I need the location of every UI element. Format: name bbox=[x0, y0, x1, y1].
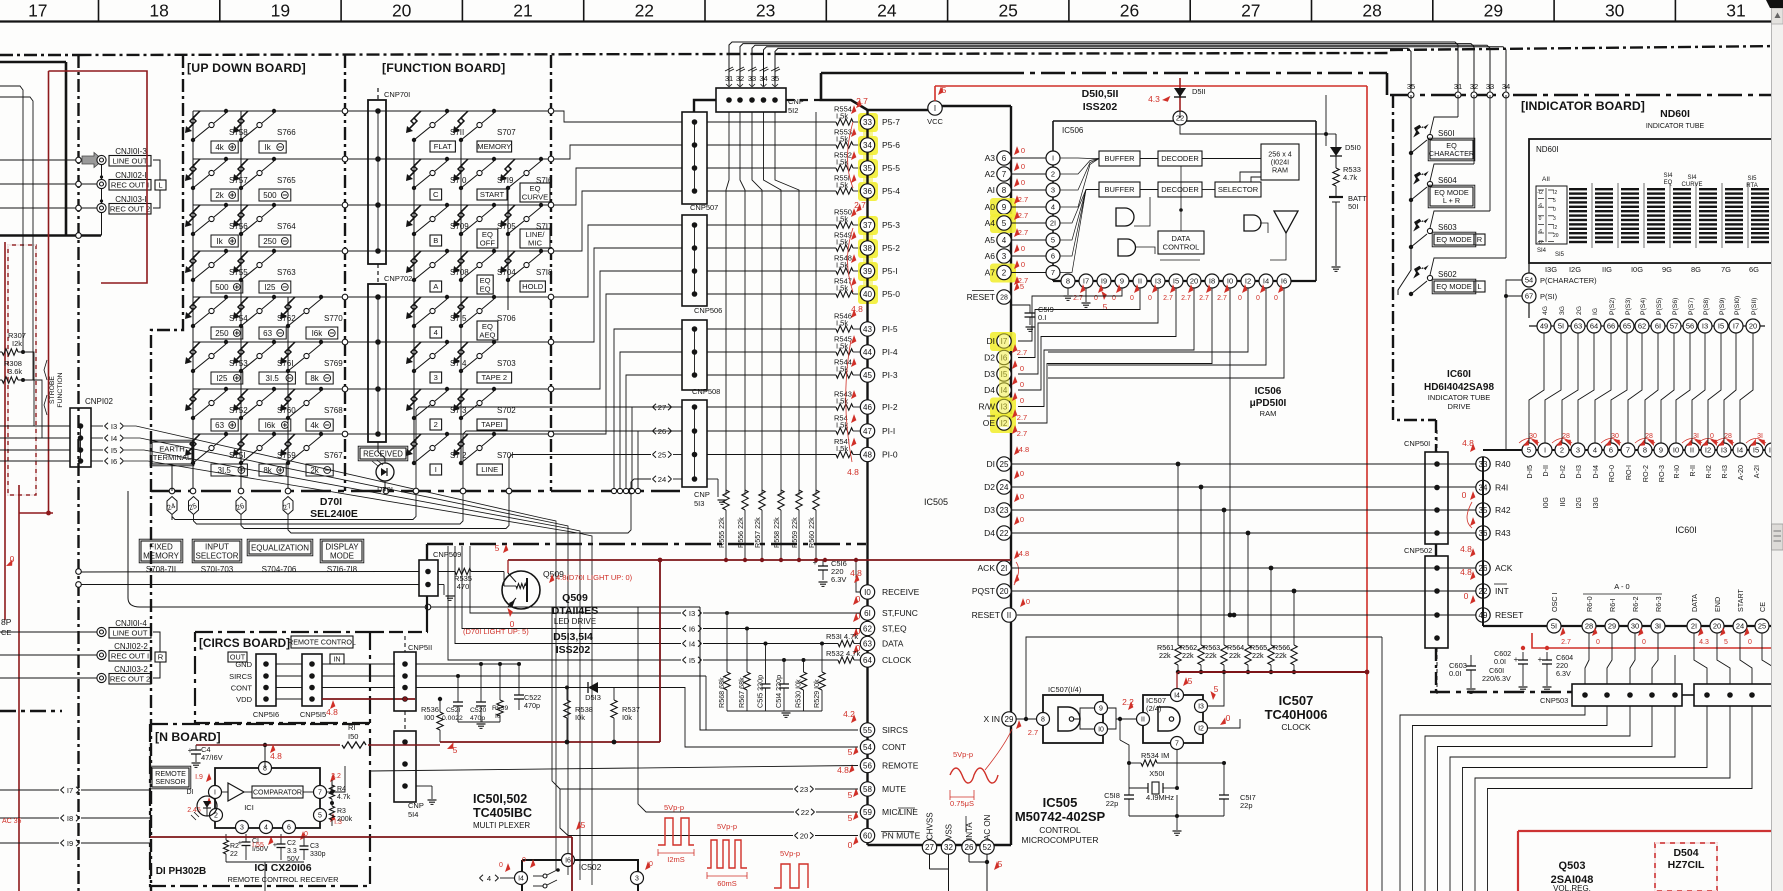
indicator board boundary bbox=[1390, 94, 1783, 97]
circs board frame bbox=[195, 631, 370, 633]
svg-text:R6-2: R6-2 bbox=[1631, 596, 1640, 612]
svg-text:4.3: 4.3 bbox=[1699, 639, 1709, 646]
connector CNP513 bbox=[682, 400, 707, 487]
svg-text:FLAT: FLAT bbox=[434, 142, 452, 151]
svg-text:S604: S604 bbox=[1438, 176, 1457, 185]
switch S766 bbox=[239, 138, 243, 142]
svg-text:22: 22 bbox=[801, 808, 809, 817]
svg-text:C5I4 220p: C5I4 220p bbox=[774, 675, 783, 708]
IC505 pin 46 PI-2 bbox=[860, 400, 874, 414]
wire tube pin 65 to IC601 bbox=[1611, 333, 1627, 443]
red mark left edge bbox=[6, 559, 13, 566]
svg-text:R555 22k: R555 22k bbox=[717, 517, 726, 548]
svg-text:+: + bbox=[1514, 654, 1519, 664]
svg-text:CNP702: CNP702 bbox=[384, 274, 412, 283]
svg-text:R: R bbox=[1477, 235, 1483, 244]
N board wires bbox=[264, 761, 266, 768]
svg-text:0.75μS: 0.75μS bbox=[950, 799, 974, 808]
IC601 pin 29 R6-I bbox=[1605, 619, 1619, 633]
svg-text:64: 64 bbox=[863, 656, 872, 665]
svg-text:CONT: CONT bbox=[231, 684, 253, 693]
svg-text:I0k: I0k bbox=[575, 713, 585, 722]
svg-text:P5-5: P5-5 bbox=[882, 163, 900, 173]
svg-text:P5-2: P5-2 bbox=[882, 243, 900, 253]
svg-text:2I: 2I bbox=[1050, 219, 1056, 228]
svg-text:S764: S764 bbox=[277, 222, 296, 231]
svg-text:S70I-703: S70I-703 bbox=[201, 565, 234, 574]
svg-text:R568 68k: R568 68k bbox=[717, 677, 726, 708]
IC505 right edge bbox=[1010, 106, 1012, 845]
svg-text:50I: 50I bbox=[1348, 202, 1358, 211]
svg-text:2.7: 2.7 bbox=[1018, 195, 1028, 204]
wire matrix row to connector bbox=[560, 111, 682, 122]
switch S709 bbox=[412, 232, 416, 236]
svg-text:SELECTOR: SELECTOR bbox=[1218, 185, 1259, 194]
svg-text:4.I9MHz: 4.I9MHz bbox=[1146, 793, 1174, 802]
svg-text:RO-2: RO-2 bbox=[1641, 465, 1650, 482]
svg-text:RAM: RAM bbox=[1272, 166, 1288, 175]
svg-text:34: 34 bbox=[759, 74, 767, 83]
svg-text:I3: I3 bbox=[689, 609, 695, 618]
tube ND601 pin 5I 3G bbox=[1554, 319, 1568, 333]
resistor R533 4.7k bbox=[1333, 168, 1339, 186]
wire bus lead 35 bbox=[775, 48, 1411, 95]
svg-text:A2: A2 bbox=[985, 169, 996, 179]
crystal bottom wire bbox=[1129, 815, 1224, 817]
wire CNP512 left to CNP507 bbox=[694, 100, 716, 112]
svg-text:CNP50I: CNP50I bbox=[1404, 439, 1430, 448]
svg-text:I6k: I6k bbox=[265, 421, 277, 430]
IC506 pin22 top bbox=[1173, 111, 1187, 125]
wires 13-15 vertical risers bbox=[470, 546, 681, 613]
svg-text:32: 32 bbox=[944, 843, 953, 852]
svg-text:22k: 22k bbox=[1205, 651, 1217, 660]
IC601 top pin 6 bbox=[1604, 443, 1618, 457]
resistor R558 22k bbox=[778, 490, 784, 510]
svg-text:D3: D3 bbox=[984, 505, 995, 515]
svg-text:RESET: RESET bbox=[972, 610, 1000, 620]
white circles crossing indicator boundary bbox=[1408, 92, 1414, 98]
svg-text:4.8: 4.8 bbox=[1462, 438, 1474, 448]
tube ND601 outline bbox=[1529, 139, 1772, 263]
svg-text:2G: 2G bbox=[1576, 306, 1583, 315]
IC505 pin 3 A6 bbox=[997, 249, 1011, 263]
wires from CNP102 pins rightward bbox=[124, 426, 556, 870]
svg-text:9: 9 bbox=[1099, 706, 1103, 713]
svg-text:I2: I2 bbox=[1553, 225, 1557, 231]
svg-text:20: 20 bbox=[1000, 587, 1009, 596]
svg-text:2: 2 bbox=[1051, 170, 1055, 179]
wire thick feed from boundary to IC505 bbox=[821, 72, 1000, 75]
svg-text:43: 43 bbox=[863, 325, 872, 334]
wire CNP503 fan bbox=[1463, 706, 1708, 891]
resistor R537 10k bbox=[598, 687, 614, 689]
svg-text:R557 22k: R557 22k bbox=[753, 517, 762, 548]
svg-text:I: I bbox=[435, 465, 437, 474]
svg-text:R532 4.7k: R532 4.7k bbox=[826, 649, 860, 658]
svg-text:I2G: I2G bbox=[1574, 497, 1583, 509]
IC601 pin 20 END bbox=[1710, 619, 1724, 633]
switch S60I bbox=[1409, 151, 1413, 155]
svg-text:ISS202: ISS202 bbox=[556, 644, 591, 656]
svg-text:D5II: D5II bbox=[1192, 87, 1206, 96]
IC601 pin 2I DATA bbox=[1687, 619, 1701, 633]
wires 61 62 from angle labels bbox=[703, 612, 860, 614]
svg-text:I0: I0 bbox=[864, 588, 871, 597]
svg-text:7: 7 bbox=[1175, 741, 1179, 748]
red marks IC506 bottom pins bbox=[1080, 284, 1085, 293]
svg-text:470p: 470p bbox=[524, 701, 540, 710]
svg-text:4.8: 4.8 bbox=[1019, 445, 1029, 454]
wire REMOTE long bbox=[370, 766, 858, 772]
svg-text:I6: I6 bbox=[111, 457, 117, 466]
svg-text:+: + bbox=[1538, 654, 1543, 664]
wire matrix row to connector bbox=[560, 225, 682, 297]
svg-text:S602: S602 bbox=[1438, 270, 1457, 279]
svg-text:L: L bbox=[158, 181, 162, 190]
pull-down ground rail bbox=[727, 710, 822, 712]
resistor R556 22k bbox=[742, 490, 748, 510]
resistor R538 10k bbox=[565, 686, 569, 690]
angle labels 23 22 20 wires bbox=[795, 786, 799, 789]
svg-text:5I2: 5I2 bbox=[788, 106, 798, 115]
svg-text:FUNCTION: FUNCTION bbox=[57, 372, 64, 407]
svg-text:S7I6-7I8: S7I6-7I8 bbox=[327, 565, 358, 574]
maroon dashed box left bbox=[8, 245, 36, 495]
IC505 pin I2 OE bbox=[990, 414, 1016, 433]
svg-text:SIRCS: SIRCS bbox=[229, 672, 252, 681]
svg-text:RI: RI bbox=[348, 723, 356, 732]
svg-text:I4: I4 bbox=[1263, 277, 1269, 286]
tube ND601 pin 20 P(SII) bbox=[1746, 319, 1760, 333]
svg-text:6G: 6G bbox=[1749, 265, 1759, 274]
capacitor cluster C521 C520 R539 C522 bbox=[456, 674, 460, 678]
svg-text:0.0I: 0.0I bbox=[1449, 669, 1462, 678]
svg-text:0: 0 bbox=[499, 862, 503, 869]
svg-text:31: 31 bbox=[725, 74, 733, 83]
svg-text:4.8: 4.8 bbox=[850, 568, 862, 578]
wire bank bottoms to VDD rail bbox=[725, 510, 727, 560]
IC505 pin 52 AC ON bbox=[980, 840, 994, 854]
scrollbar thumb bbox=[1772, 524, 1783, 550]
svg-text:S769: S769 bbox=[324, 359, 343, 368]
svg-text:D-I3: D-I3 bbox=[1574, 465, 1583, 479]
connector CNP512 bbox=[716, 88, 786, 112]
IC506 pin 2I bbox=[1046, 216, 1060, 230]
wire CONT bbox=[685, 687, 858, 747]
resistor R530 bbox=[802, 658, 806, 662]
svg-text:34: 34 bbox=[1502, 82, 1510, 91]
switch S762 bbox=[239, 324, 243, 328]
svg-text:R40: R40 bbox=[1495, 459, 1511, 469]
svg-text:3: 3 bbox=[635, 876, 639, 883]
IC505 pin 7 A2 bbox=[997, 167, 1011, 181]
matrix column verticals function bbox=[413, 140, 415, 463]
svg-text:25: 25 bbox=[998, 1, 1017, 21]
top-right margin marker bbox=[1775, 6, 1783, 20]
svg-text:3.2: 3.2 bbox=[331, 773, 341, 780]
switch S770 bbox=[286, 324, 290, 328]
wire CNP503 fan bbox=[1475, 706, 1730, 891]
svg-text:D504: D504 bbox=[1673, 847, 1698, 859]
svg-text:220/6.3V: 220/6.3V bbox=[1482, 674, 1511, 683]
svg-text:CONTROL: CONTROL bbox=[1163, 242, 1200, 251]
tube ND601 pin 64 IG bbox=[1587, 319, 1601, 333]
svg-text:5: 5 bbox=[1051, 236, 1055, 245]
svg-text:I2: I2 bbox=[1245, 277, 1251, 286]
svg-text:TERMINAL: TERMINAL bbox=[153, 453, 191, 462]
svg-text:IC507(I/4): IC507(I/4) bbox=[1048, 685, 1082, 694]
svg-text:2k: 2k bbox=[310, 466, 319, 475]
wire matrix row to connector bbox=[560, 145, 682, 159]
svg-text:P5-0: P5-0 bbox=[882, 289, 900, 299]
svg-text:SI4: SI4 bbox=[1663, 173, 1673, 179]
IC507 quarter 1 box bbox=[1043, 695, 1103, 743]
svg-text:S7I2: S7I2 bbox=[450, 451, 467, 460]
svg-text:9: 9 bbox=[1120, 277, 1124, 286]
IC506 pin 2 bbox=[1046, 167, 1060, 181]
svg-text:S76I: S76I bbox=[277, 359, 293, 368]
svg-text:29: 29 bbox=[1484, 1, 1503, 21]
svg-text:R567 68k: R567 68k bbox=[737, 677, 746, 708]
svg-text:SI5: SI5 bbox=[1747, 176, 1757, 182]
svg-text:5I3: 5I3 bbox=[694, 499, 704, 508]
svg-text:START: START bbox=[480, 190, 505, 199]
svg-text:INT: INT bbox=[1495, 586, 1509, 596]
svg-text:L + R: L + R bbox=[1443, 196, 1460, 205]
svg-text:3: 3 bbox=[1002, 252, 1007, 261]
IC505 pin 22 D4 bbox=[997, 526, 1011, 540]
svg-text:40: 40 bbox=[863, 290, 872, 299]
IC505 pin 43 PI-5 bbox=[860, 322, 874, 336]
angle labels 27-24 at CNP513 bbox=[653, 404, 657, 407]
svg-text:REC OUT 2: REC OUT 2 bbox=[110, 205, 150, 214]
wire matrix row to connector bbox=[560, 191, 682, 251]
svg-text:I5: I5 bbox=[689, 656, 695, 665]
IC601 top pin 2 bbox=[1555, 443, 1569, 457]
tube ND601 pin 63 2G bbox=[1571, 319, 1585, 333]
svg-text:63: 63 bbox=[215, 421, 224, 430]
svg-text:63: 63 bbox=[1574, 322, 1582, 331]
svg-text:I0: I0 bbox=[1227, 277, 1233, 286]
svg-text:0: 0 bbox=[1130, 295, 1134, 302]
svg-text:I2: I2 bbox=[1705, 446, 1711, 455]
svg-text:4: 4 bbox=[487, 874, 491, 883]
svg-text:5I: 5I bbox=[1558, 322, 1564, 331]
IC507 quarter 2 box bbox=[1143, 695, 1203, 743]
svg-text:D4: D4 bbox=[984, 528, 995, 538]
svg-text:C3: C3 bbox=[310, 843, 319, 850]
svg-text:PN MUTE: PN MUTE bbox=[882, 831, 921, 841]
svg-text:0: 0 bbox=[10, 554, 15, 564]
resistor R557 22k bbox=[759, 490, 765, 510]
svg-text:MUTE: MUTE bbox=[882, 784, 906, 794]
buffer box 1 bbox=[1099, 151, 1140, 166]
diode D513 bbox=[566, 686, 568, 688]
IC601 top pin 9 bbox=[1654, 443, 1668, 457]
resistor R561 22k bbox=[1175, 645, 1181, 665]
svg-text:P(SI0): P(SI0) bbox=[1734, 296, 1741, 315]
svg-text:66: 66 bbox=[1607, 322, 1615, 331]
svg-text:49: 49 bbox=[1540, 322, 1548, 331]
svg-text:2.7: 2.7 bbox=[1017, 429, 1027, 438]
svg-text:DI: DI bbox=[987, 459, 996, 469]
svg-text:CNP509: CNP509 bbox=[433, 550, 461, 559]
wire pin14 to red rail bbox=[1176, 672, 1178, 688]
switch S708 bbox=[412, 278, 416, 282]
svg-text:R-I0: R-I0 bbox=[1672, 465, 1681, 479]
svg-text:57: 57 bbox=[1670, 322, 1678, 331]
svg-text:P(SII): P(SII) bbox=[1751, 298, 1758, 315]
svg-text:5: 5 bbox=[1188, 676, 1193, 686]
IC601 pin 24 START bbox=[1733, 619, 1747, 633]
verticals R561-R566 to data buses bbox=[1177, 464, 1179, 645]
svg-text:CLOCK: CLOCK bbox=[882, 655, 912, 665]
svg-text:CNP: CNP bbox=[694, 490, 710, 499]
svg-text:ND60I: ND60I bbox=[1660, 108, 1690, 120]
svg-text:44: 44 bbox=[863, 348, 872, 357]
svg-text:2.7: 2.7 bbox=[854, 200, 866, 210]
svg-text:4.8: 4.8 bbox=[1019, 549, 1029, 558]
svg-text:IC507: IC507 bbox=[1279, 693, 1314, 708]
svg-text:2.7: 2.7 bbox=[856, 96, 868, 106]
svg-text:DATA: DATA bbox=[1690, 594, 1699, 612]
svg-text:25: 25 bbox=[1758, 622, 1766, 631]
svg-text:CNP503: CNP503 bbox=[1540, 696, 1568, 705]
R channel bracket bbox=[153, 632, 160, 652]
up-down / function boundary bbox=[344, 55, 346, 491]
IC506 pin I3 bbox=[1151, 274, 1165, 288]
svg-text:0: 0 bbox=[848, 840, 853, 850]
svg-text:33: 33 bbox=[748, 74, 756, 83]
svg-text:6.3V: 6.3V bbox=[831, 575, 846, 584]
svg-text:A - 0: A - 0 bbox=[1614, 582, 1629, 591]
svg-text:38: 38 bbox=[863, 244, 872, 253]
wires IC601 bottom pins to CNP503 bbox=[1585, 633, 1589, 684]
IC601 top edge bbox=[1483, 449, 1783, 451]
svg-text:3: 3 bbox=[434, 373, 438, 382]
svg-text:D5I3: D5I3 bbox=[585, 693, 601, 702]
svg-text:7: 7 bbox=[1002, 170, 1007, 179]
thick black bus into CNP511 area bbox=[426, 544, 428, 560]
svg-text:4: 4 bbox=[1051, 203, 1055, 212]
thick vertical above CNP511 bbox=[426, 544, 428, 560]
svg-text:I: I bbox=[1544, 446, 1546, 455]
svg-text:8: 8 bbox=[1002, 186, 1007, 195]
svg-text:22p: 22p bbox=[1106, 799, 1119, 808]
IC505 pin 8 AI bbox=[997, 183, 1011, 197]
dark red VDD riser and rail bbox=[440, 741, 660, 743]
svg-text:D5I0: D5I0 bbox=[1345, 143, 1361, 152]
svg-text:R2: R2 bbox=[230, 843, 239, 850]
AND gate 2 bbox=[1118, 239, 1136, 256]
IC505 pin I5 D3 bbox=[997, 367, 1011, 381]
switch S603 bbox=[1409, 245, 1413, 249]
svg-text:LINE: LINE bbox=[899, 807, 918, 817]
wire tube pin 66 to IC601 bbox=[1595, 333, 1611, 443]
IC505 pin 40 P5-0 bbox=[860, 287, 874, 301]
triangle driver bbox=[1274, 211, 1298, 233]
svg-text:5Vp-p: 5Vp-p bbox=[780, 849, 800, 858]
svg-text:6: 6 bbox=[1051, 252, 1055, 261]
IC601 pin 25 CE bbox=[1755, 619, 1769, 633]
switch S7I7 bbox=[506, 232, 510, 236]
switch S70I bbox=[459, 461, 463, 465]
svg-text:Q509: Q509 bbox=[562, 592, 588, 604]
svg-text:33: 33 bbox=[863, 118, 872, 127]
svg-text:29: 29 bbox=[1005, 715, 1014, 724]
svg-text:CNJI0I-4: CNJI0I-4 bbox=[115, 619, 147, 628]
svg-text:P(S3): P(S3) bbox=[1625, 298, 1632, 315]
decoder box 2 bbox=[1158, 182, 1202, 197]
svg-text:I: I bbox=[214, 790, 216, 797]
svg-text:PI-5: PI-5 bbox=[882, 324, 898, 334]
IC505 pin I4 D4 bbox=[997, 383, 1011, 397]
svg-text:IC506: IC506 bbox=[1062, 126, 1084, 135]
IC505 pin 62 ST,EQ bbox=[860, 621, 874, 635]
svg-text:67: 67 bbox=[1525, 292, 1533, 301]
switch S706 bbox=[459, 324, 463, 328]
cluster ground bbox=[458, 721, 500, 723]
out label box bbox=[228, 652, 247, 662]
svg-text:C2: C2 bbox=[287, 840, 296, 847]
wire tube pin 6I to IC601 bbox=[1645, 333, 1658, 443]
top-right corner marker bbox=[1766, 0, 1783, 8]
svg-text:I3G: I3G bbox=[1545, 265, 1557, 274]
svg-text:0: 0 bbox=[1256, 295, 1260, 302]
connector CNJ102-1 REC OUT 1 bbox=[97, 179, 106, 188]
wire bus lead 34 bbox=[764, 47, 1507, 95]
IC505 pin 37 P5-3 bbox=[860, 218, 874, 232]
svg-text:P(S5): P(S5) bbox=[1656, 298, 1663, 315]
svg-text:3: 3 bbox=[1553, 216, 1556, 222]
svg-text:-I2: -I2 bbox=[1537, 240, 1543, 246]
red line junction dots bbox=[1521, 646, 1525, 650]
IC505 pin 24 D2 bbox=[997, 480, 1011, 494]
svg-text:2I: 2I bbox=[1691, 622, 1697, 631]
svg-text:0: 0 bbox=[1020, 469, 1024, 478]
svg-text:28: 28 bbox=[1000, 295, 1008, 302]
svg-text:SI5: SI5 bbox=[1555, 252, 1565, 258]
svg-text:64: 64 bbox=[1590, 322, 1598, 331]
matrix column verticals up-down bbox=[192, 111, 194, 491]
IC505 RESET pin 11 bbox=[1002, 608, 1016, 622]
resistor R562 22k bbox=[1198, 645, 1204, 665]
svg-text:RESET: RESET bbox=[1495, 610, 1523, 620]
IC601 top pin I6 bbox=[1765, 443, 1779, 457]
svg-text:6I: 6I bbox=[864, 609, 871, 618]
IC601 top pin 7 bbox=[1621, 443, 1635, 457]
svg-text:60: 60 bbox=[863, 831, 872, 840]
angle pins 13-16 at CNP102 bbox=[91, 425, 103, 427]
yellow streak data pins bbox=[999, 332, 1009, 427]
wire top to D510 branch bbox=[1325, 95, 1327, 134]
resistor R54I 1.5k bbox=[707, 454, 836, 456]
svg-text:5: 5 bbox=[1553, 198, 1556, 204]
IC505 pin 64 CLOCK bbox=[860, 653, 874, 667]
scrollbar track artifact right edge bbox=[1772, 0, 1783, 891]
svg-text:IC60I: IC60I bbox=[1447, 369, 1471, 380]
switch S7I0 bbox=[412, 186, 416, 190]
svg-text:CNP506: CNP506 bbox=[694, 306, 722, 315]
svg-text:31: 31 bbox=[1454, 82, 1462, 91]
tube ND601 pin I5 P(S9) bbox=[1714, 319, 1728, 333]
transistor Q509 bbox=[502, 571, 540, 609]
svg-text:30: 30 bbox=[1605, 1, 1625, 21]
IC505 pin 56 REMOTE bbox=[860, 758, 874, 772]
svg-text:330p: 330p bbox=[310, 851, 326, 858]
svg-text:R-I2: R-I2 bbox=[1704, 465, 1713, 479]
